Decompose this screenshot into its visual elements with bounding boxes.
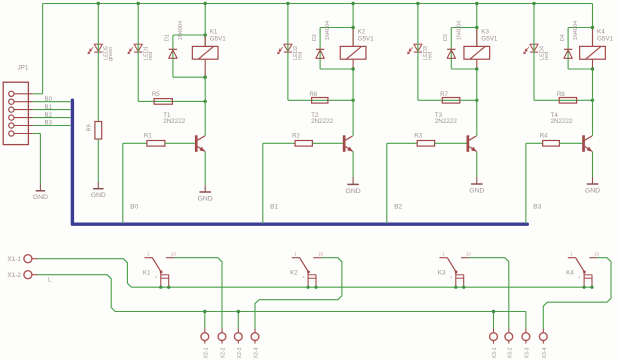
svg-text:X3-3: X3-3	[524, 347, 530, 358]
svg-text:G5V1: G5V1	[210, 36, 227, 43]
svg-text:K3: K3	[438, 269, 446, 276]
svg-text:X2-2: X2-2	[221, 347, 227, 358]
svg-text:B1: B1	[270, 204, 278, 211]
svg-text:B2: B2	[45, 112, 53, 119]
svg-text:B3: B3	[533, 204, 541, 211]
svg-text:G5V1: G5V1	[481, 36, 498, 43]
svg-text:s: s	[450, 275, 452, 279]
svg-text:X3-4: X3-4	[542, 347, 548, 358]
svg-text:X1-2: X1-2	[7, 272, 21, 279]
svg-text:X2-1: X2-1	[203, 347, 209, 358]
svg-text:B1: B1	[45, 104, 53, 111]
svg-text:1N4004: 1N4004	[178, 21, 184, 41]
svg-text:10: 10	[466, 251, 472, 256]
svg-text:B0: B0	[130, 204, 138, 211]
svg-text:R1: R1	[144, 133, 152, 140]
svg-text:s: s	[579, 275, 581, 279]
svg-text:K4: K4	[566, 269, 574, 276]
svg-text:B0: B0	[45, 96, 53, 103]
svg-text:GND: GND	[346, 188, 361, 195]
svg-text:R6: R6	[309, 91, 317, 98]
svg-text:GND: GND	[585, 187, 600, 194]
svg-text:2N2222: 2N2222	[551, 118, 574, 125]
svg-text:R7: R7	[440, 91, 448, 98]
svg-text:B2: B2	[394, 204, 402, 211]
svg-text:red: red	[298, 52, 304, 60]
svg-text:X2-4: X2-4	[254, 347, 260, 358]
svg-text:1: 1	[442, 252, 445, 257]
svg-text:K1: K1	[210, 29, 218, 36]
svg-text:K3: K3	[481, 29, 489, 36]
svg-text:red: red	[148, 52, 154, 60]
svg-text:green: green	[108, 47, 114, 61]
svg-text:R4: R4	[540, 133, 548, 140]
svg-text:GND: GND	[469, 187, 484, 194]
svg-text:s: s	[155, 275, 157, 279]
svg-text:D3: D3	[443, 34, 449, 41]
svg-text:X2-3: X2-3	[237, 347, 243, 358]
svg-text:JP1: JP1	[18, 65, 29, 72]
svg-text:R5: R5	[152, 91, 160, 98]
svg-text:2N2222: 2N2222	[163, 118, 186, 125]
svg-text:1: 1	[147, 252, 150, 257]
svg-text:red: red	[428, 52, 434, 60]
svg-text:GND: GND	[91, 192, 106, 199]
svg-text:R3: R3	[414, 133, 422, 140]
svg-text:1: 1	[570, 252, 573, 257]
svg-text:2N2222: 2N2222	[435, 118, 458, 125]
svg-text:R8: R8	[557, 91, 565, 98]
svg-text:s: s	[303, 275, 305, 279]
svg-text:GND: GND	[33, 194, 48, 201]
svg-text:10: 10	[171, 251, 177, 256]
svg-text:1N4004: 1N4004	[325, 21, 331, 41]
svg-text:1N4004: 1N4004	[456, 21, 462, 41]
svg-text:G5V1: G5V1	[597, 36, 614, 43]
svg-text:X3-1: X3-1	[492, 347, 498, 358]
svg-text:G5V1: G5V1	[358, 36, 375, 43]
svg-text:2N2222: 2N2222	[311, 118, 334, 125]
svg-text:GND: GND	[198, 195, 213, 202]
svg-text:X3-2: X3-2	[507, 347, 513, 358]
svg-text:K2: K2	[358, 29, 366, 36]
svg-text:K1: K1	[143, 269, 151, 276]
svg-text:10: 10	[594, 251, 600, 256]
svg-text:R9: R9	[87, 124, 93, 131]
svg-text:K2: K2	[290, 269, 298, 276]
svg-text:D1: D1	[165, 34, 171, 41]
svg-text:1: 1	[294, 252, 297, 257]
svg-text:1N4004: 1N4004	[573, 21, 579, 41]
svg-text:10: 10	[318, 251, 324, 256]
svg-text:K4: K4	[597, 29, 605, 36]
svg-text:D4: D4	[560, 34, 566, 41]
svg-text:D2: D2	[312, 34, 318, 41]
svg-text:R2: R2	[292, 133, 300, 140]
svg-text:X1-1: X1-1	[7, 256, 21, 263]
svg-text:red: red	[544, 52, 550, 60]
svg-text:B3: B3	[45, 120, 53, 127]
